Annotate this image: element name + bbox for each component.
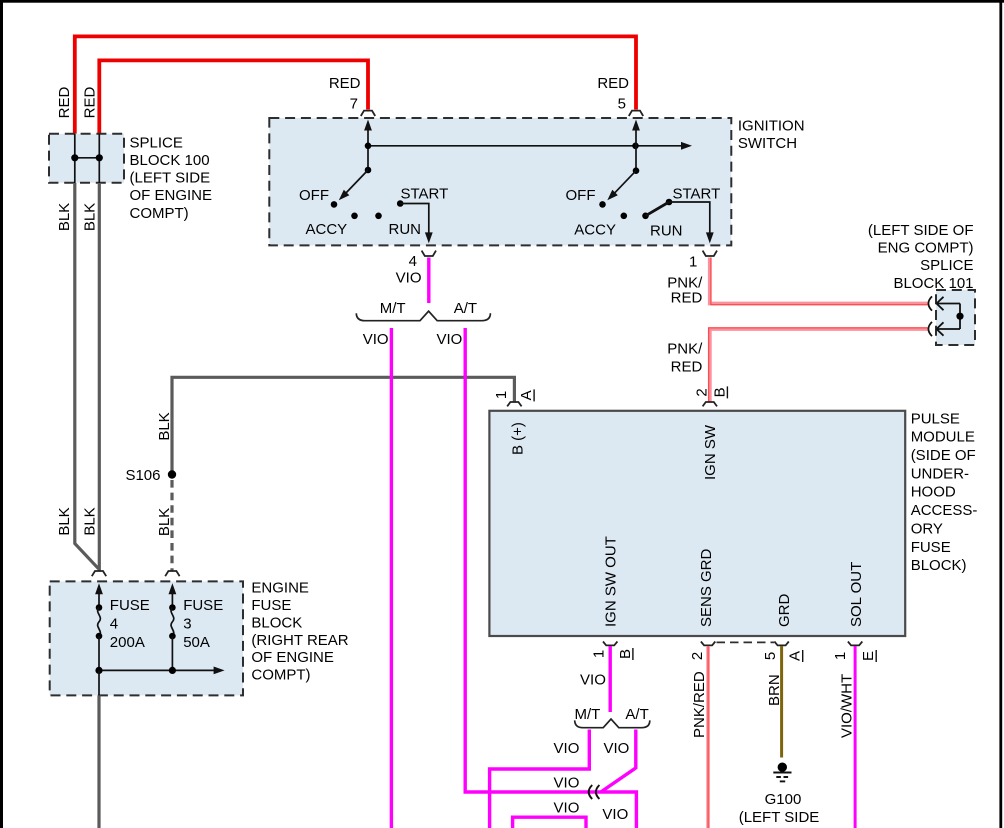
svg-text:BLK: BLK [81, 203, 98, 231]
pin name GRD [776, 594, 793, 628]
svg-text:ORY: ORY [911, 520, 943, 537]
svg-text:OF ENGINE: OF ENGINE [251, 649, 334, 666]
svg-text:1: 1 [689, 254, 697, 271]
fuse 3 entry arrow [171, 592, 173, 608]
splice junction dots [71, 154, 78, 161]
wire PNK/RED ignition pin 1 to splice block 101 [710, 258, 928, 304]
svg-text:RED: RED [56, 86, 73, 118]
connector hat pin 5 [629, 111, 643, 116]
svg-text:VIO: VIO [602, 806, 628, 823]
right OFF contact [599, 201, 606, 208]
svg-text:RUN: RUN [389, 221, 422, 238]
label BLK upper left [56, 203, 73, 231]
label BLK lower right [81, 507, 98, 535]
right ACCY contact [621, 213, 628, 220]
wire VIO M/T lower branch [490, 730, 590, 828]
pulse module box [489, 411, 905, 636]
brace M/T A/T upper [356, 311, 490, 321]
svg-text:SOL OUT: SOL OUT [848, 562, 865, 627]
wire BLK below fuse block [97, 695, 100, 828]
left RUN contact [375, 213, 382, 220]
svg-text:START: START [673, 185, 721, 202]
bus line with right arrow [368, 145, 681, 147]
label PNK/RED rotated [691, 671, 708, 738]
connector cup pin 4 [422, 251, 436, 256]
left START contact [397, 200, 404, 207]
wire RED from splice block 100 left to ignition switch pin 5 [75, 36, 636, 133]
wire VIO M/T branch full height [390, 328, 393, 828]
svg-text:(LEFT SIDE: (LEFT SIDE [739, 809, 820, 826]
svg-text:ACCY: ACCY [306, 221, 348, 238]
svg-text:S106: S106 [125, 467, 160, 484]
splice 101 junction [959, 304, 961, 330]
svg-text:BLK: BLK [156, 412, 173, 440]
svg-text:200A: 200A [110, 634, 145, 651]
label VIO/WHT rotated [839, 674, 856, 738]
fuse 3 element [169, 604, 176, 611]
svg-text:1: 1 [493, 391, 510, 399]
label BLK upper right [81, 203, 98, 231]
svg-text:(LEFT SIDE OF: (LEFT SIDE OF [868, 222, 974, 239]
svg-text:A: A [518, 390, 535, 400]
wire VIO pin 4 [427, 258, 430, 304]
pin name SENS GRD [698, 548, 715, 627]
pin 2 label bottom [689, 652, 706, 660]
svg-text:FUSE: FUSE [911, 539, 951, 556]
svg-text:RED: RED [597, 75, 629, 92]
left START wire to pin 4 with down arrow [400, 204, 429, 235]
connector hat pin 7 [361, 111, 375, 116]
node S106 [168, 470, 176, 478]
label RED (right vertical wire) [81, 86, 98, 118]
wire PNK/RED splice 101 to pulse module pin B [710, 329, 928, 402]
svg-text:3: 3 [183, 616, 191, 633]
svg-text:ENGINE: ENGINE [251, 580, 309, 597]
svg-text:(LEFT SIDE: (LEFT SIDE [130, 170, 211, 187]
svg-text:5: 5 [618, 96, 626, 113]
svg-text:A/T: A/T [625, 706, 648, 723]
pulse module pin B labels [694, 388, 711, 396]
svg-text:GRD: GRD [776, 594, 793, 628]
svg-text:B (+): B (+) [510, 422, 527, 455]
pin A label bottom [787, 650, 804, 662]
connector cup pin 1 [703, 251, 717, 256]
svg-text:BLOCK 101: BLOCK 101 [893, 275, 973, 292]
svg-text:2: 2 [689, 652, 706, 660]
svg-text:IGN SW OUT: IGN SW OUT [602, 536, 619, 627]
svg-text:OFF: OFF [299, 187, 329, 204]
pin B label bottom [617, 648, 634, 660]
svg-text:PULSE: PULSE [911, 410, 960, 427]
wire VIO/WHT pulse pin 1 E [854, 646, 857, 828]
wire VIO A/T lower branch diagonal [601, 730, 636, 792]
svg-text:(SIDE OF: (SIDE OF [911, 447, 976, 464]
connector hat pulse pin B [703, 402, 717, 406]
svg-text:VIO: VIO [396, 270, 422, 287]
svg-text:4: 4 [409, 253, 417, 270]
splice 101 connector 1 [928, 296, 960, 310]
svg-text:RED: RED [81, 86, 98, 118]
right START contact [666, 199, 673, 206]
left OFF contact [331, 201, 338, 208]
svg-text:SPLICE: SPLICE [920, 257, 973, 274]
wire BLK dashed (S106 to fuse block) [170, 480, 173, 571]
wire BRN pulse pin 5 [780, 646, 783, 758]
svg-text:RUN: RUN [650, 222, 683, 239]
svg-text:BLK: BLK [81, 507, 98, 535]
right pivot dot [633, 167, 640, 174]
svg-text:50A: 50A [183, 634, 210, 651]
svg-text:VIO: VIO [554, 775, 580, 792]
wire BLK right (splice 100 to fuse block) [98, 183, 101, 571]
svg-text:7: 7 [350, 96, 358, 113]
junction dot left pivot top [365, 143, 372, 150]
svg-text:G100: G100 [765, 791, 802, 808]
pin 5 label bottom [762, 652, 779, 660]
label BLK above S106 [156, 412, 173, 440]
fuse 4 element [96, 604, 103, 611]
label BLK lower left [56, 507, 73, 535]
page border left [0, 0, 3, 828]
label RED (left vertical wire) [56, 86, 73, 118]
label BLK dashed wire [156, 508, 173, 536]
inline connector arcs on VIO run [589, 785, 600, 799]
pin name IGN SW [702, 424, 719, 480]
wire RED from splice block 100 right to ignition switch pin 7 [99, 60, 368, 133]
left pivot dot [365, 167, 372, 174]
svg-text:SWITCH: SWITCH [738, 135, 797, 152]
svg-text:BLOCK: BLOCK [251, 614, 302, 631]
svg-text:M/T: M/T [574, 706, 600, 723]
wire VIO pulse pin 1 [609, 646, 612, 712]
splice 101 connector 2 [928, 322, 960, 336]
svg-text:VIO: VIO [580, 672, 606, 689]
splice block 101 box [936, 290, 975, 345]
svg-text:COMPT): COMPT) [130, 205, 189, 222]
svg-text:SENS GRD: SENS GRD [698, 548, 715, 627]
right START wire to pin 1 with down arrow [669, 202, 710, 235]
fuse block bus arrow [99, 669, 214, 671]
left wiper arrow to OFF [345, 170, 369, 195]
svg-text:M/T: M/T [380, 300, 406, 317]
svg-text:VIO/WHT: VIO/WHT [839, 674, 856, 738]
svg-text:BLOCK 100: BLOCK 100 [130, 152, 210, 169]
svg-text:4: 4 [110, 616, 118, 633]
svg-text:RED: RED [671, 290, 703, 307]
engine fuse block box [50, 581, 243, 695]
pin name SOL OUT [848, 562, 865, 627]
svg-text:OF ENGINE: OF ENGINE [130, 187, 213, 204]
fuse block output wire [98, 670, 100, 695]
svg-text:FUSE: FUSE [183, 597, 223, 614]
right wiper RUN-START [646, 202, 670, 216]
right wiper arrow to OFF [613, 171, 636, 195]
page border top [0, 0, 1004, 3]
right switch shaft + up arrow [635, 128, 637, 171]
svg-text:5: 5 [762, 652, 779, 660]
svg-text:BLK: BLK [156, 508, 173, 536]
wire BLK left (splice 100 to fuse block, with bend) [75, 183, 99, 569]
pulse module pin A labels [493, 391, 510, 399]
right RUN contact [642, 213, 649, 220]
svg-text:1: 1 [832, 652, 849, 660]
svg-text:ACCESS-: ACCESS- [911, 502, 978, 519]
svg-text:(RIGHT REAR: (RIGHT REAR [251, 632, 348, 649]
ignition switch box [269, 118, 731, 245]
wire VIO A/T branch down to lower junction [465, 328, 636, 828]
svg-text:BRN: BRN [766, 674, 783, 706]
dashed link between pin 2 and pin 5 [717, 641, 775, 643]
svg-text:VIO: VIO [363, 331, 389, 348]
svg-text:BLOCK): BLOCK) [911, 557, 967, 574]
svg-text:VIO: VIO [554, 740, 580, 757]
svg-text:RED: RED [671, 358, 703, 375]
pin name B (+) [510, 422, 527, 455]
svg-text:FUSE: FUSE [251, 597, 291, 614]
pin name IGN SW OUT [602, 536, 619, 627]
connector cups bottom pins [603, 642, 617, 646]
svg-text:1: 1 [591, 650, 608, 658]
svg-text:BLK: BLK [56, 507, 73, 535]
brace M/T A/T lower [575, 719, 650, 728]
svg-text:A/T: A/T [454, 300, 477, 317]
svg-text:A: A [787, 651, 804, 661]
connector hat fuse 3 [165, 571, 179, 576]
label BRN rotated [766, 674, 783, 706]
pin 1 label bottom [591, 650, 608, 658]
left ACCY contact [351, 213, 358, 220]
svg-text:PNK/RED: PNK/RED [691, 671, 708, 738]
page border right [999, 0, 1002, 828]
fuse 4 entry arrow [98, 592, 100, 608]
svg-text:VIO: VIO [437, 331, 463, 348]
connector hat pulse pin A [507, 402, 521, 406]
svg-text:OFF: OFF [566, 187, 596, 204]
svg-text:IGNITION: IGNITION [738, 117, 805, 134]
svg-text:B: B [711, 387, 728, 397]
svg-text:VIO: VIO [554, 799, 580, 816]
splice block 100 internal wires [75, 134, 100, 183]
svg-text:ENG COMPT): ENG COMPT) [878, 240, 974, 257]
wire PNK/RED pulse pin 2 [706, 646, 710, 828]
svg-text:MODULE: MODULE [911, 429, 975, 446]
svg-text:ACCY: ACCY [574, 222, 616, 239]
svg-text:VIO: VIO [604, 740, 630, 757]
svg-text:SPLICE: SPLICE [130, 134, 183, 151]
wire BLK from S106 up and over to pulse module pin A [172, 377, 514, 474]
bottom stub wire [513, 817, 586, 828]
svg-text:FUSE: FUSE [110, 597, 150, 614]
svg-text:UNDER-: UNDER- [911, 465, 969, 482]
svg-text:START: START [401, 185, 449, 202]
junction dot right pivot top [632, 143, 639, 150]
svg-text:BLK: BLK [56, 203, 73, 231]
pin 1/E label bottom [832, 652, 849, 660]
svg-text:PNK/: PNK/ [667, 341, 703, 358]
svg-text:IGN SW: IGN SW [702, 424, 719, 480]
splice block 100 box [49, 134, 124, 183]
svg-text:2: 2 [694, 388, 711, 396]
ground G100 [778, 763, 787, 772]
connector hat fuse 4 [92, 571, 106, 576]
svg-text:E: E [860, 651, 877, 661]
svg-text:COMPT): COMPT) [251, 667, 310, 684]
svg-text:HOOD: HOOD [911, 484, 956, 501]
svg-text:RED: RED [329, 75, 361, 92]
left switch shaft + up arrow [367, 128, 369, 170]
svg-text:B: B [617, 649, 634, 659]
